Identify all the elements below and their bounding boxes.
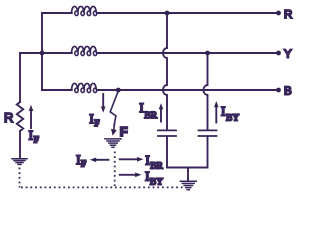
current arrow IF up (beside resistor) (30, 111, 32, 129)
wire: B phase line left lead (42, 89, 72, 91)
wire: cap2 bottom lead (207, 137, 209, 168)
current arrow IF down (fault branch) (102, 94, 104, 107)
terminal dot R (276, 11, 281, 16)
dotted return path: fault vertical (114, 152, 116, 187)
svg-text:F: F (81, 160, 86, 170)
current arrow IF left (bottom) (96, 159, 109, 161)
inductor (R phase) (72, 6, 97, 15)
svg-text:I: I (89, 111, 93, 126)
fault lightning arrow (110, 91, 118, 126)
wire: resistor to ground (19, 131, 21, 159)
svg-text:BR: BR (150, 161, 163, 171)
svg-text:F: F (120, 124, 128, 139)
capacitor branch 2: junction dot on Y line (205, 51, 210, 56)
wire: Y phase line from left branch (20, 52, 72, 54)
svg-text:BY: BY (150, 178, 163, 188)
svg-text:I: I (145, 153, 149, 168)
wire: left branch down to resistor (19, 53, 21, 102)
capacitor C2 plates (199, 130, 217, 136)
svg-text:I: I (139, 100, 143, 115)
wire: cap branch 2 vertical with hop over B (203, 55, 207, 130)
ground (right earth) (180, 181, 196, 189)
svg-text:B: B (284, 86, 292, 98)
wire: B phase line to terminal (97, 89, 279, 91)
current arrow IBY up (215, 107, 217, 123)
capacitor branch 1: from R line (165, 11, 170, 16)
svg-text:BY: BY (226, 114, 239, 124)
inductor (Y phase) (72, 46, 97, 55)
svg-text:Y: Y (284, 49, 292, 61)
current arrow IBY right (bottom) (120, 174, 135, 176)
node: junction dot at (42,53) (40, 51, 45, 56)
svg-text:I: I (76, 152, 80, 167)
wire: capacitor common bottom bar (167, 167, 208, 169)
wire: R phase line to terminal (97, 12, 279, 14)
dotted return path: left vertical (19, 168, 21, 188)
ground (fault earth) (105, 139, 121, 147)
svg-text:F: F (94, 119, 99, 129)
svg-text:I: I (221, 104, 225, 119)
svg-text:R: R (284, 9, 292, 21)
current arrow IBR up (160, 109, 162, 122)
inductor (B phase) (72, 83, 97, 92)
svg-text:F: F (34, 135, 39, 145)
wire: main vertical bus x=42 (41, 13, 43, 90)
wire: Y phase line to terminal (97, 52, 279, 54)
terminal dot Y (276, 51, 281, 56)
wire: stem to right ground (187, 168, 189, 182)
svg-text:I: I (29, 127, 33, 142)
svg-text:R: R (4, 110, 13, 125)
capacitor C1 plates (158, 130, 176, 136)
wire: cap branch 1 vertical with hops over Y and B (163, 15, 167, 130)
terminal dot B (276, 88, 281, 93)
svg-text:BR: BR (144, 111, 157, 121)
svg-text:I: I (145, 169, 149, 184)
wire: cap1 bottom lead (166, 137, 168, 168)
node: fault junction dot on B line (116, 88, 121, 93)
resistor R (17, 102, 23, 131)
ground (left earth) (12, 159, 27, 165)
current arrow IBR right (bottom) (120, 158, 137, 160)
wire: R phase line left lead (42, 12, 72, 14)
dotted return path: bottom horizontal (21, 186, 184, 188)
